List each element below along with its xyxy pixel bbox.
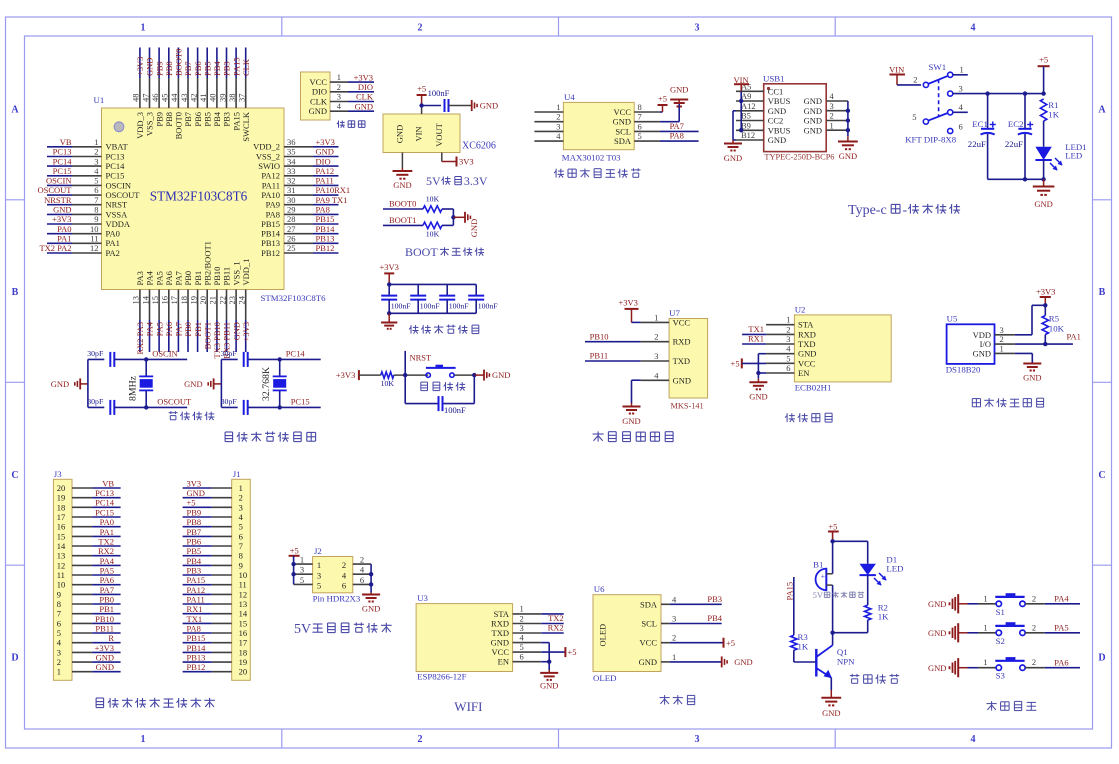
svg-text:5: 5 <box>638 131 642 141</box>
J3 pin 20 <box>57 483 92 493</box>
svg-text:U5: U5 <box>947 314 958 324</box>
svg-text:RX2 PA3: RX2 PA3 <box>135 322 145 355</box>
J1 pin 6 <box>212 531 243 541</box>
svg-text:PA8: PA8 <box>316 205 330 215</box>
svg-text:+5: +5 <box>568 647 577 657</box>
J2 pin 4 <box>353 565 371 575</box>
regulator XC6206 body <box>383 114 460 153</box>
wire net RX2 <box>541 623 564 633</box>
wire net BOOT0 <box>174 48 184 79</box>
svg-text:19: 19 <box>57 493 65 503</box>
U1 pin 31 PA10 <box>261 185 313 200</box>
svg-text:PA4: PA4 <box>1054 594 1069 604</box>
svg-text:PA7: PA7 <box>174 322 184 336</box>
svg-text:GND: GND <box>145 58 155 76</box>
U1 pin 47 VSS_3 <box>140 78 154 136</box>
USB1 pin 1 GND right <box>804 120 848 135</box>
U1 pin 27 PB14 <box>261 224 313 239</box>
wire S3 to net PA6 <box>1025 657 1080 668</box>
svg-text:1: 1 <box>520 604 524 614</box>
svg-text:GND: GND <box>309 106 327 116</box>
svg-text:10: 10 <box>239 570 248 580</box>
wire net PA8 <box>313 205 339 215</box>
svg-text:1: 1 <box>317 560 321 570</box>
caption MCU minimal system <box>225 431 233 433</box>
svg-text:+3V3: +3V3 <box>619 298 638 308</box>
J3 pin 18 <box>57 502 92 512</box>
svg-text:WIFI: WIFI <box>454 699 482 714</box>
wire net PA12 <box>313 166 339 176</box>
J1 pin 11 <box>212 580 247 590</box>
svg-text:47: 47 <box>140 94 150 103</box>
svg-text:1: 1 <box>786 315 790 325</box>
U3 pin 3 TXD <box>492 623 542 638</box>
wire net PA15 <box>231 48 241 79</box>
wire net PB5 <box>202 48 212 79</box>
svg-text:U6: U6 <box>594 584 605 594</box>
svg-text:DIO: DIO <box>312 87 327 97</box>
wire VIN node <box>419 103 441 114</box>
svg-text:VDD_1: VDD_1 <box>241 259 251 286</box>
svg-text:19: 19 <box>188 296 198 305</box>
wire collector node <box>830 631 834 646</box>
svg-text:5: 5 <box>300 575 304 585</box>
U2 pin 1 STA <box>766 315 814 330</box>
svg-text:B1: B1 <box>813 560 823 570</box>
svg-text:TXD: TXD <box>798 339 815 349</box>
U1 pin 1 VBAT <box>72 137 129 152</box>
wire net TX2 <box>541 613 564 623</box>
U1 pin 16 PA6 <box>160 271 174 320</box>
wire net TX1 <box>183 614 212 624</box>
wire net CLK <box>348 92 374 102</box>
svg-text:VCC: VCC <box>798 358 816 368</box>
wire net PB0 <box>183 320 193 352</box>
svg-text:STM32F103C8T6: STM32F103C8T6 <box>261 293 327 303</box>
svg-text:Type-c: Type-c <box>848 203 887 218</box>
wire net +3V3 <box>135 48 145 79</box>
svg-text:RX1: RX1 <box>187 604 203 614</box>
reset push button S <box>426 365 456 377</box>
svg-text:+3V3: +3V3 <box>336 370 355 380</box>
svg-text:U4: U4 <box>564 92 575 102</box>
svg-text:3.3V: 3.3V <box>464 174 488 188</box>
svg-text:PA10: PA10 <box>261 190 280 200</box>
wire gnd to S1 <box>968 593 997 604</box>
wire net PB6 <box>193 48 203 79</box>
power +5 U4 <box>658 94 668 113</box>
svg-text:R1: R1 <box>1048 100 1058 110</box>
svg-text:GND: GND <box>804 116 822 126</box>
svg-text:PB11: PB11 <box>95 623 114 633</box>
download header P1 body <box>301 72 331 120</box>
svg-text:2: 2 <box>672 633 676 643</box>
U1 pin 11 PA1 <box>72 234 120 249</box>
svg-text:GND: GND <box>540 681 558 691</box>
svg-text:PB4: PB4 <box>212 61 222 76</box>
svg-text:2: 2 <box>1032 657 1036 667</box>
svg-text:PA7: PA7 <box>670 121 684 131</box>
svg-text:16: 16 <box>239 628 248 638</box>
svg-text:TX2: TX2 <box>548 613 564 623</box>
svg-text:VCC: VCC <box>310 77 328 87</box>
svg-text:PB3: PB3 <box>222 61 232 76</box>
svg-text:5: 5 <box>317 580 321 590</box>
wire net TX1 <box>742 324 766 334</box>
wire net +3V3 <box>241 320 251 352</box>
svg-text:R3: R3 <box>798 632 809 642</box>
svg-text:VB: VB <box>60 137 72 147</box>
svg-text:+3V3: +3V3 <box>316 137 335 147</box>
wire sw1 pin4 stub <box>953 111 968 113</box>
wire net R <box>92 633 121 643</box>
U1 pin 15 PA5 <box>150 271 164 320</box>
svg-text:PB9: PB9 <box>187 507 202 517</box>
J1 pin 19 <box>212 657 247 667</box>
svg-text:PA4: PA4 <box>145 270 155 285</box>
svg-text:CLK: CLK <box>310 96 328 106</box>
caption sound light alarm <box>850 675 860 677</box>
mcu U1 body <box>102 108 285 290</box>
svg-text:34: 34 <box>287 156 296 166</box>
svg-text:B: B <box>1099 287 1106 298</box>
svg-text:46: 46 <box>150 94 160 103</box>
svg-text:+3V3: +3V3 <box>135 57 145 76</box>
resistor 10K boot0 <box>423 195 442 213</box>
svg-text:VDD_2: VDD_2 <box>253 142 280 152</box>
U6 pin 1 GND <box>639 652 677 667</box>
svg-text:PB13: PB13 <box>316 234 335 244</box>
wire net PB5 <box>183 546 212 556</box>
gnd U5 <box>1015 353 1042 382</box>
svg-text:7: 7 <box>94 195 98 205</box>
J3 pin 17 <box>57 512 92 522</box>
svg-text:44: 44 <box>169 93 179 102</box>
svg-text:PB9: PB9 <box>154 61 164 76</box>
LED D1 <box>860 541 887 605</box>
U4 pin 4 <box>534 131 563 141</box>
caption heart rate sensor <box>555 169 557 178</box>
resistor R5 10K <box>1042 305 1064 344</box>
svg-text:GND: GND <box>622 416 640 426</box>
J1 pin 12 <box>212 589 247 599</box>
wire net PB7 <box>183 48 193 79</box>
svg-text:6: 6 <box>786 363 790 373</box>
wire net PB7 <box>183 527 212 537</box>
U1 pin 26 PB13 <box>261 234 313 249</box>
U7 pin 2 RXD <box>641 332 691 347</box>
caption blood pressure module <box>593 433 604 435</box>
svg-text:GND: GND <box>670 85 688 95</box>
wire net GND <box>313 147 339 157</box>
svg-text:GND: GND <box>768 135 786 145</box>
svg-text:RX2: RX2 <box>98 546 114 556</box>
transistor Q1 NPN <box>816 645 832 690</box>
svg-text:2: 2 <box>57 657 61 667</box>
wire crystal junctions left <box>114 357 187 409</box>
svg-text:GND: GND <box>639 657 657 667</box>
svg-text:12: 12 <box>90 243 99 253</box>
U3 pin 1 STA <box>494 604 542 619</box>
svg-text:5: 5 <box>786 353 790 363</box>
J1 pin 13 <box>212 599 247 609</box>
J3 pin 7 <box>57 609 92 619</box>
svg-text:14: 14 <box>239 609 248 619</box>
svg-text:6: 6 <box>94 185 98 195</box>
wire S2 to net PA5 <box>1025 622 1080 633</box>
svg-text:U1: U1 <box>94 95 105 105</box>
J1 pin 5 <box>212 522 243 532</box>
gnd alarm <box>821 690 841 718</box>
capacitor 30pF bottom right <box>221 397 248 415</box>
svg-text:VIN: VIN <box>889 65 904 75</box>
U1 pin 35 VSS_2 <box>256 147 313 162</box>
power +3V3 filter flag <box>379 262 398 285</box>
svg-text:21: 21 <box>208 296 218 305</box>
svg-text:100nF: 100nF <box>449 302 470 311</box>
svg-text:PB1: PB1 <box>193 322 203 337</box>
U1 pin 32 PA11 <box>262 176 313 191</box>
capacitor EC2 22uF <box>1005 94 1033 180</box>
svg-text:29: 29 <box>287 205 296 215</box>
wire net PA1 <box>47 234 72 244</box>
reset cap loop <box>405 375 474 404</box>
wire net PB14 <box>313 224 339 234</box>
svg-text:PC15: PC15 <box>106 171 125 181</box>
wire usb right gnd bus <box>838 101 858 161</box>
net label BOOT0 <box>383 199 423 210</box>
U6 pin 4 SDA <box>640 594 677 609</box>
svg-text:Q1: Q1 <box>837 647 848 657</box>
U4 pin 7 GND <box>613 112 660 127</box>
USB1 pin 3 GND right <box>804 101 848 116</box>
svg-text:XC6206: XC6206 <box>462 141 496 152</box>
wire net CLK <box>241 48 251 79</box>
svg-text:PA15: PA15 <box>231 57 241 76</box>
svg-text:30pF: 30pF <box>87 349 104 358</box>
svg-text:PA15: PA15 <box>231 112 241 131</box>
svg-text:11: 11 <box>239 580 247 590</box>
svg-text:41: 41 <box>198 94 208 103</box>
wire net PB3 <box>222 48 232 79</box>
svg-text:GND: GND <box>53 205 71 215</box>
svg-text:8: 8 <box>638 102 642 112</box>
crystal 8MHz <box>128 359 154 407</box>
svg-text:GND: GND <box>355 101 373 111</box>
U1 pin 24 VDD_1 <box>237 259 251 320</box>
svg-text:PC15: PC15 <box>53 166 72 176</box>
svg-text:+5: +5 <box>1039 55 1048 65</box>
J3 pin 8 <box>57 599 92 609</box>
wire net GND <box>348 101 374 111</box>
U1 pin 9 VDDA <box>72 214 131 229</box>
svg-text:36: 36 <box>287 137 296 147</box>
svg-text:3: 3 <box>786 334 790 344</box>
svg-text:30: 30 <box>287 195 296 205</box>
wire gnd to S2 <box>968 622 997 633</box>
U1 pin 2 PC13 <box>72 147 124 162</box>
power +5 U6 <box>670 638 735 648</box>
svg-text:PA8: PA8 <box>187 623 201 633</box>
svg-text:5V: 5V <box>813 590 824 600</box>
U3 pin 6 EN <box>498 652 542 667</box>
svg-text:1: 1 <box>556 102 560 112</box>
svg-text:PA6: PA6 <box>100 575 114 585</box>
capacitor EC1 22uF <box>968 94 996 180</box>
wire net TX3 PB10 <box>212 320 222 359</box>
svg-text:GND: GND <box>804 125 822 135</box>
svg-text:GND: GND <box>96 662 114 672</box>
svg-text:2: 2 <box>418 23 423 34</box>
USB1 pin A5 CC1 <box>736 82 783 97</box>
J3 pin 9 <box>57 589 92 599</box>
wire net PC13 <box>47 147 72 157</box>
U1 pin 30 PA9 <box>266 195 313 210</box>
caption display <box>660 697 670 699</box>
svg-text:PB11: PB11 <box>222 267 232 286</box>
svg-text:PA1: PA1 <box>57 234 71 244</box>
svg-text:1K: 1K <box>878 612 889 622</box>
svg-text:PA12: PA12 <box>187 585 206 595</box>
svg-text:GND: GND <box>491 638 509 648</box>
svg-text:13: 13 <box>239 599 248 609</box>
svg-text:PB3: PB3 <box>222 112 232 127</box>
wire net PA7 <box>174 320 184 352</box>
U2 pin 2 RXD <box>766 324 816 339</box>
svg-text:3: 3 <box>317 570 321 580</box>
svg-text:DIO: DIO <box>358 82 373 92</box>
wire net GND <box>183 488 212 498</box>
USB1 pin B12 GND <box>736 130 786 145</box>
svg-text:OSCOUT: OSCOUT <box>157 397 192 407</box>
svg-text:12: 12 <box>57 560 65 570</box>
svg-text:GND: GND <box>51 379 69 389</box>
J3 pin 14 <box>57 541 92 551</box>
svg-text:STM32F103C8T6: STM32F103C8T6 <box>150 189 248 204</box>
U1 pin 29 PA8 <box>266 205 313 220</box>
U1 pin 28 PB15 <box>261 214 313 229</box>
svg-text:GND: GND <box>187 488 205 498</box>
svg-text:OSCIN: OSCIN <box>152 349 178 359</box>
push button S2 <box>995 623 1025 646</box>
wire net RX1 <box>742 334 766 344</box>
gnd bar boot <box>465 212 479 237</box>
svg-text:+3V3: +3V3 <box>241 322 251 341</box>
gnd U4 <box>660 85 689 122</box>
svg-text:S3: S3 <box>996 671 1006 681</box>
svg-text:PA0: PA0 <box>100 517 114 527</box>
U4 pin 3 <box>534 121 563 131</box>
svg-text:PB15: PB15 <box>261 219 280 229</box>
wire net PB4 <box>212 48 222 79</box>
svg-text:6: 6 <box>360 575 364 585</box>
wire net OSCIN <box>46 176 72 186</box>
svg-text:PB10: PB10 <box>212 267 222 286</box>
svg-text:PC15: PC15 <box>95 507 114 517</box>
push button S3 <box>995 658 1025 681</box>
resistor R1 1K <box>1040 99 1059 147</box>
wire U3 gnd-en bus <box>541 643 551 670</box>
caption crystal circuit <box>169 412 178 414</box>
wire net PA1 <box>92 527 121 537</box>
J3 pin 12 <box>57 560 92 570</box>
svg-text:PB5: PB5 <box>202 112 212 127</box>
svg-text:5: 5 <box>520 642 524 652</box>
svg-text:2: 2 <box>342 560 346 570</box>
download port pin 2 DIO <box>312 82 348 97</box>
svg-text:KFT DIP-8X8: KFT DIP-8X8 <box>905 135 957 145</box>
wire net PA12 <box>183 585 212 595</box>
J2 pin 2 <box>353 555 371 565</box>
wire net RX3 PB11 <box>222 320 232 359</box>
svg-text:PB11: PB11 <box>590 351 609 361</box>
svg-text:14: 14 <box>57 541 66 551</box>
svg-text:+: + <box>821 572 825 581</box>
gnd typec <box>1033 179 1055 209</box>
U4 pin 6 SCL <box>615 121 659 136</box>
svg-text:PB13: PB13 <box>187 653 206 663</box>
wire net RX1 <box>183 604 212 614</box>
USB1 pin 2 GND right <box>804 111 848 126</box>
U1 pin 22 PB11 <box>217 267 231 320</box>
wire net GND <box>92 653 121 663</box>
svg-text:PB9: PB9 <box>154 112 164 127</box>
svg-text:23: 23 <box>227 296 237 305</box>
J2 pin 1 <box>294 555 313 565</box>
svg-text:11: 11 <box>57 570 65 580</box>
svg-text:5: 5 <box>94 176 98 186</box>
power +5 U3 <box>541 647 576 657</box>
wire sw1 pin3 to rail <box>953 91 1046 95</box>
svg-text:9: 9 <box>94 214 98 224</box>
svg-text:PA8: PA8 <box>266 209 280 219</box>
svg-text:C: C <box>1098 470 1105 481</box>
U1 pin 4 PC15 <box>72 166 124 181</box>
U1 pin 41 PB5 <box>198 78 212 127</box>
svg-text:GND: GND <box>362 604 380 614</box>
svg-text:PA0: PA0 <box>106 229 120 239</box>
svg-text:PB2/BOOT1: PB2/BOOT1 <box>202 241 212 285</box>
push button S1 <box>995 594 1025 617</box>
svg-text:D: D <box>1098 653 1105 664</box>
svg-text:22uF: 22uF <box>968 139 986 149</box>
wire net DIO <box>348 82 374 92</box>
svg-text:100nF: 100nF <box>391 302 412 311</box>
svg-text:S1: S1 <box>996 607 1005 617</box>
J3 pin 13 <box>57 551 92 561</box>
svg-text:PB10: PB10 <box>590 331 609 341</box>
svg-text:30pF: 30pF <box>87 397 104 406</box>
resistor R3 1K <box>791 632 817 662</box>
J1 pin 18 <box>212 647 247 657</box>
J3 pin 19 <box>57 493 92 503</box>
svg-text:+5: +5 <box>726 638 735 648</box>
designator Q1 <box>837 647 855 667</box>
U4 pin 5 SDA <box>614 131 660 146</box>
capacitor 100nF filter 2 <box>410 284 440 313</box>
svg-text:PB8: PB8 <box>164 61 174 76</box>
svg-text:5: 5 <box>912 112 916 122</box>
gnd bar S3 <box>928 658 968 677</box>
USB1 pin A9 VBUS <box>736 91 791 106</box>
svg-text:SWCLK: SWCLK <box>241 111 251 142</box>
svg-text:VBUS: VBUS <box>768 126 791 136</box>
svg-text:PA4: PA4 <box>100 556 115 566</box>
wire net PA7 <box>660 121 699 131</box>
J1 pin 2 <box>212 493 243 503</box>
U1 pin 36 VDD_2 <box>253 137 313 152</box>
wire typec bottom rail <box>988 177 1046 181</box>
